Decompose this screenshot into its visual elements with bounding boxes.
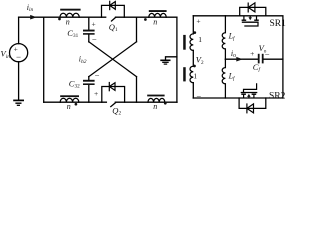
svg-text:+: + xyxy=(250,49,254,58)
transformer core bar (bottom) xyxy=(183,67,186,81)
ground (below Vin) xyxy=(13,100,24,105)
svg-text:−: − xyxy=(95,70,100,80)
svg-text:Lf: Lf xyxy=(228,32,236,42)
ground (primary common) xyxy=(160,60,170,64)
wire: top rail left segment xyxy=(19,16,106,18)
voltage source Vin xyxy=(10,17,28,99)
dot (bottom-left winding polarity) xyxy=(75,103,78,106)
svg-text:n: n xyxy=(153,102,157,111)
svg-text:iin: iin xyxy=(27,3,34,13)
wire: cross-link vertical (top right of Q1) xyxy=(136,17,138,42)
svg-text:SR2: SR2 xyxy=(269,91,286,101)
body diode loop of Q2 xyxy=(102,87,125,103)
svg-text:C31: C31 xyxy=(67,28,78,39)
mosfet SR2 xyxy=(241,83,258,98)
inductor Lf (bottom) xyxy=(222,59,225,98)
svg-text:Cf: Cf xyxy=(253,62,262,73)
capacitor Cf xyxy=(258,54,283,64)
dot (bottom-right winding polarity) xyxy=(164,102,167,105)
wire: crossing diagonal from C32 xyxy=(89,42,137,77)
body diode loop of SR2 xyxy=(239,98,266,108)
svg-text:n: n xyxy=(66,17,70,26)
wire: top rail right of Q1 xyxy=(116,16,177,18)
wire: crossing diagonal from C31 xyxy=(89,42,137,77)
svg-text:Q1: Q1 xyxy=(109,22,118,33)
svg-text:V2: V2 xyxy=(196,55,204,66)
svg-text:C32: C32 xyxy=(69,78,80,89)
body diode loop of Q1 xyxy=(102,5,125,17)
capacitor C31 xyxy=(83,17,95,42)
wire: cross-link vertical (bottom right of Q2) xyxy=(136,77,138,103)
switch Q1 blade xyxy=(112,17,116,21)
wire: secondary column xyxy=(192,16,194,98)
svg-text:1: 1 xyxy=(193,71,197,80)
arrow io xyxy=(236,57,243,62)
transformer winding 1 (bottom) xyxy=(190,66,193,83)
transformer winding 1 (top) xyxy=(190,34,193,51)
diode (SR1) xyxy=(248,3,255,12)
svg-text:n: n xyxy=(67,102,71,111)
capacitor C32 xyxy=(83,77,95,103)
svg-text:io: io xyxy=(231,49,236,59)
svg-text:1: 1 xyxy=(198,35,202,44)
winding n (top-right) coil xyxy=(149,13,166,17)
svg-text:Lf: Lf xyxy=(228,72,236,82)
winding n (bottom-left) core bar xyxy=(60,95,79,97)
svg-text:Vin: Vin xyxy=(1,49,11,61)
winding n (bottom-right) coil xyxy=(148,98,165,102)
wire: ground stub xyxy=(166,57,177,60)
svg-text:SR1: SR1 xyxy=(270,19,287,29)
winding n (bottom-left) coil xyxy=(60,98,79,102)
svg-text:+: + xyxy=(94,89,98,98)
wire: bottom rail right of Q2 xyxy=(115,101,177,103)
svg-text:Vo: Vo xyxy=(259,43,267,54)
wire: secondary bottom rail xyxy=(193,97,283,99)
svg-text:+: + xyxy=(91,19,95,28)
dot (top-right winding polarity) xyxy=(144,18,147,21)
diode (SR2) xyxy=(247,104,254,113)
wire: secondary top rail xyxy=(193,16,283,98)
transformer core bar (top) xyxy=(183,35,186,50)
svg-text:−: − xyxy=(16,52,21,62)
dot (transformer top winding) xyxy=(193,31,196,34)
dot (transformer bottom winding) xyxy=(193,65,196,68)
body diode loop of SR1 xyxy=(240,7,266,15)
svg-text:Q2: Q2 xyxy=(112,106,121,117)
diode (Q1) xyxy=(110,1,116,9)
winding n (top-left) core bar xyxy=(60,9,80,11)
mosfet SR1 xyxy=(242,16,259,26)
wire: input junction vertical xyxy=(43,17,45,102)
inductor Lf (top) xyxy=(222,16,225,59)
wire: primary common vertical xyxy=(176,17,178,102)
svg-text:−: − xyxy=(92,34,97,44)
svg-text:−: − xyxy=(196,91,201,101)
arrow i_in xyxy=(30,15,36,20)
svg-text:n: n xyxy=(153,18,157,27)
wire: bottom rail left segment xyxy=(44,101,107,103)
winding n (top-left) coil xyxy=(60,13,79,17)
dot (top-left winding polarity) xyxy=(58,18,61,21)
winding n (top-right) core bar xyxy=(149,10,167,12)
wire: io output wire xyxy=(225,58,257,60)
svg-text:ih2: ih2 xyxy=(79,55,87,65)
svg-text:+: + xyxy=(196,17,200,26)
switch Q2 blade xyxy=(111,103,116,107)
winding n (bottom-right) core bar xyxy=(147,95,164,97)
diode (Q2) xyxy=(109,83,115,91)
